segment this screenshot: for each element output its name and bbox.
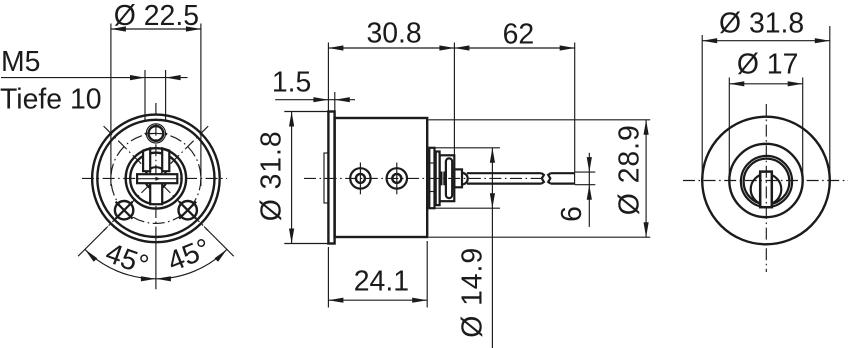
shaft break zigzag 1: [542, 173, 544, 183]
dim D22.5 arrow right: [186, 26, 201, 31]
svg-text:Ø 31.8: Ø 31.8: [256, 131, 288, 221]
svg-text:Ø 22.5: Ø 22.5: [114, 0, 199, 32]
centerline horizontal: [82, 177, 227, 179]
dim D14.9 extension top: [430, 147, 501, 149]
dim D22.5 arrow left: [111, 26, 126, 31]
dim 1.5 dimension line: [275, 99, 355, 101]
plug ring inner: [744, 159, 790, 205]
screw 2 vertical tick: [396, 163, 398, 195]
svg-text:Ø 14.9: Ø 14.9: [457, 248, 489, 338]
cam neck line 1: [440, 172, 442, 186]
dim D14.9 arrow top: [490, 148, 495, 163]
45deg arc right: [156, 249, 227, 278]
dim D17 extension left: [728, 78, 730, 184]
dim 24.1 extension left: [327, 247, 329, 308]
key right prong: [162, 148, 169, 171]
dim D14.9 extension bottom: [430, 207, 501, 209]
dim 30.8 arrow right: [439, 45, 454, 50]
shaft collar: [454, 169, 462, 187]
dim 62 extension right: [574, 43, 576, 173]
bottom-left hole circle: [115, 201, 133, 219]
key left prong: [143, 148, 150, 171]
svg-text:M5: M5: [1, 46, 40, 78]
key bar below slot: [150, 183, 162, 204]
svg-text:Tiefe 10: Tiefe 10: [0, 84, 102, 116]
dim 24.1 arrow right: [412, 298, 427, 303]
dim D31.8 arrow top: [289, 112, 294, 127]
dim D28.9 arrow top: [644, 120, 649, 135]
hub circle: [145, 167, 167, 189]
MIDDLE VIEW: side section, axis y=178.4: [256, 18, 651, 348]
key disc circle: [751, 174, 782, 205]
45deg arrow center-right: [156, 276, 171, 281]
45deg arc left: [85, 249, 156, 278]
screw 1 vertical tick: [359, 163, 361, 195]
shaft break zigzag 2: [548, 173, 550, 183]
dim 24.1 dimension line: [328, 299, 427, 301]
axis centerline: [304, 177, 544, 179]
dim D17 dimension line: [729, 83, 802, 85]
dim 6 arrow top: [587, 157, 592, 172]
45deg arrow far right: [215, 249, 227, 261]
svg-text:Ø 31.8: Ø 31.8: [719, 8, 804, 40]
screw 1 outer circle: [350, 168, 370, 188]
dim 62 arrow left: [454, 45, 469, 50]
45deg radial line right: [204, 227, 234, 257]
svg-text:6: 6: [556, 206, 588, 222]
dim D31.8 dimension line: [291, 112, 293, 244]
vertical reference line below: [155, 236, 157, 289]
centerline horizontal: [683, 180, 848, 182]
dim D31.8 arrow right: [815, 38, 830, 43]
shaft piece 1 top line: [467, 172, 542, 174]
45deg radial line left: [78, 227, 108, 257]
dim D31.8 extension right: [829, 26, 831, 184]
M5 tapped hole core circle: [149, 126, 164, 141]
svg-text:Ø 28.9: Ø 28.9: [614, 125, 646, 215]
cam plate 1 tick upper: [429, 162, 434, 164]
svg-text:Ø 17: Ø 17: [737, 49, 799, 81]
dim D28.9 arrow bottom: [644, 222, 649, 237]
dim 30.8 arrow left: [328, 45, 343, 50]
dim 6 extension bottom: [575, 184, 596, 186]
LEFT VIEW: front face of lock cylinder, center (155.9,178.4): [0, 0, 234, 289]
dim D31.8 dimension line: [702, 40, 830, 42]
dim 6 dimension line: [588, 153, 590, 227]
45deg arrow center-left: [141, 276, 156, 281]
dim D22.5 dimension line: [111, 28, 201, 30]
M5 hole center tick: [145, 132, 168, 134]
plug ring outer: [741, 156, 792, 207]
dim D31.8 arrow left: [702, 38, 717, 43]
screw 2 outer circle: [387, 168, 407, 188]
centerline vertical: [765, 104, 767, 272]
dim 30.8 dimension line: [328, 47, 454, 49]
45deg arrow far left: [85, 249, 97, 261]
cam plate 1 tick lower: [429, 191, 434, 193]
dim D31.8 extension bottom: [284, 243, 328, 245]
dim D28.9 extension top: [429, 119, 651, 121]
cam plate 2: [436, 152, 440, 206]
screw 1 inner circle: [356, 174, 365, 183]
svg-text:30.8: 30.8: [366, 18, 421, 50]
dim D14.9 dimension line: [491, 148, 493, 348]
dim 30.8/62 extension middle: [453, 43, 455, 156]
bottom-right hole circle: [179, 201, 197, 219]
key slot rect: [760, 172, 772, 208]
dim 1.5 extension right: [334, 92, 336, 112]
dim 24.1 extension right: [426, 241, 428, 308]
dim 62 arrow right: [560, 45, 575, 50]
dim D17 arrow left: [729, 81, 744, 86]
M5 tapped hole thread circle: [146, 124, 165, 143]
screw 2 inner circle: [392, 174, 401, 183]
RIGHT VIEW: rear face, center (767,180.5): [683, 8, 848, 273]
M5 extension line right: [165, 70, 167, 120]
shaft piece 2 bottom line: [551, 183, 575, 185]
dim D22.5 extension line left: [110, 24, 112, 187]
dim 1.5 arrow right: [335, 97, 350, 102]
dim 30.8 extension left: [327, 43, 329, 112]
key slot center mark: [155, 177, 160, 181]
dim 1.5 arrow left: [313, 97, 328, 102]
dim D28.9 dimension line: [645, 120, 647, 237]
dim 6 arrow bottom: [587, 185, 592, 200]
M5 extension line left: [144, 70, 146, 120]
dim D31.8 arrow bottom: [289, 229, 294, 244]
cam neck line 2: [443, 172, 445, 186]
dim 24.1 arrow left: [328, 298, 343, 303]
bottom-right hole cross: [179, 202, 196, 219]
boss inner circle: [130, 153, 181, 204]
flange rect 1.5 thick: [328, 112, 334, 244]
bottom-left hole cross: [116, 202, 133, 219]
svg-text:1.5: 1.5: [272, 67, 311, 99]
dim D17 arrow right: [788, 81, 803, 86]
rear circle D17: [729, 144, 802, 217]
dim 62 dimension line: [454, 47, 574, 49]
key slot midline: [138, 178, 177, 180]
svg-text:24.1: 24.1: [354, 266, 409, 298]
flange outer circle D31.8: [92, 115, 220, 243]
centerline diagonal 45 down-right: [104, 126, 209, 231]
dim D22.5 extension line right: [200, 24, 202, 187]
dim D31.8 extension top: [284, 111, 328, 113]
centerline diagonal 45 down-left: [104, 126, 209, 231]
centerline vertical: [155, 103, 157, 236]
svg-text:62: 62: [503, 18, 535, 50]
flange inner circle D28.9: [97, 120, 214, 237]
front boss rect: [324, 153, 329, 203]
shaft piece 1 bottom line: [467, 183, 542, 185]
boss outer circle: [126, 148, 186, 208]
shaft tip semicircle: [462, 173, 468, 185]
rear outer circle D31.8: [702, 117, 830, 245]
dim 6 extension top: [575, 171, 596, 173]
M5 arrow left: [130, 75, 145, 80]
dim D28.9 extension bottom: [429, 236, 651, 238]
dim D31.8 extension left: [701, 35, 703, 184]
shaft end edge: [574, 172, 576, 184]
dim D17 extension right: [802, 78, 804, 184]
cam disc: [440, 155, 455, 201]
body rect: [335, 118, 428, 237]
shaft piece 2 top line: [551, 172, 575, 174]
M5 leader line: [1, 77, 188, 79]
M5 arrow right: [166, 75, 181, 80]
bolt circle D22.5 (dash-dot): [111, 133, 201, 223]
dim D14.9 arrow bottom: [490, 193, 495, 208]
cam plate 1 (D14.9): [429, 148, 434, 208]
key slot rect: [137, 174, 177, 183]
cam capsule bar: [446, 158, 452, 198]
